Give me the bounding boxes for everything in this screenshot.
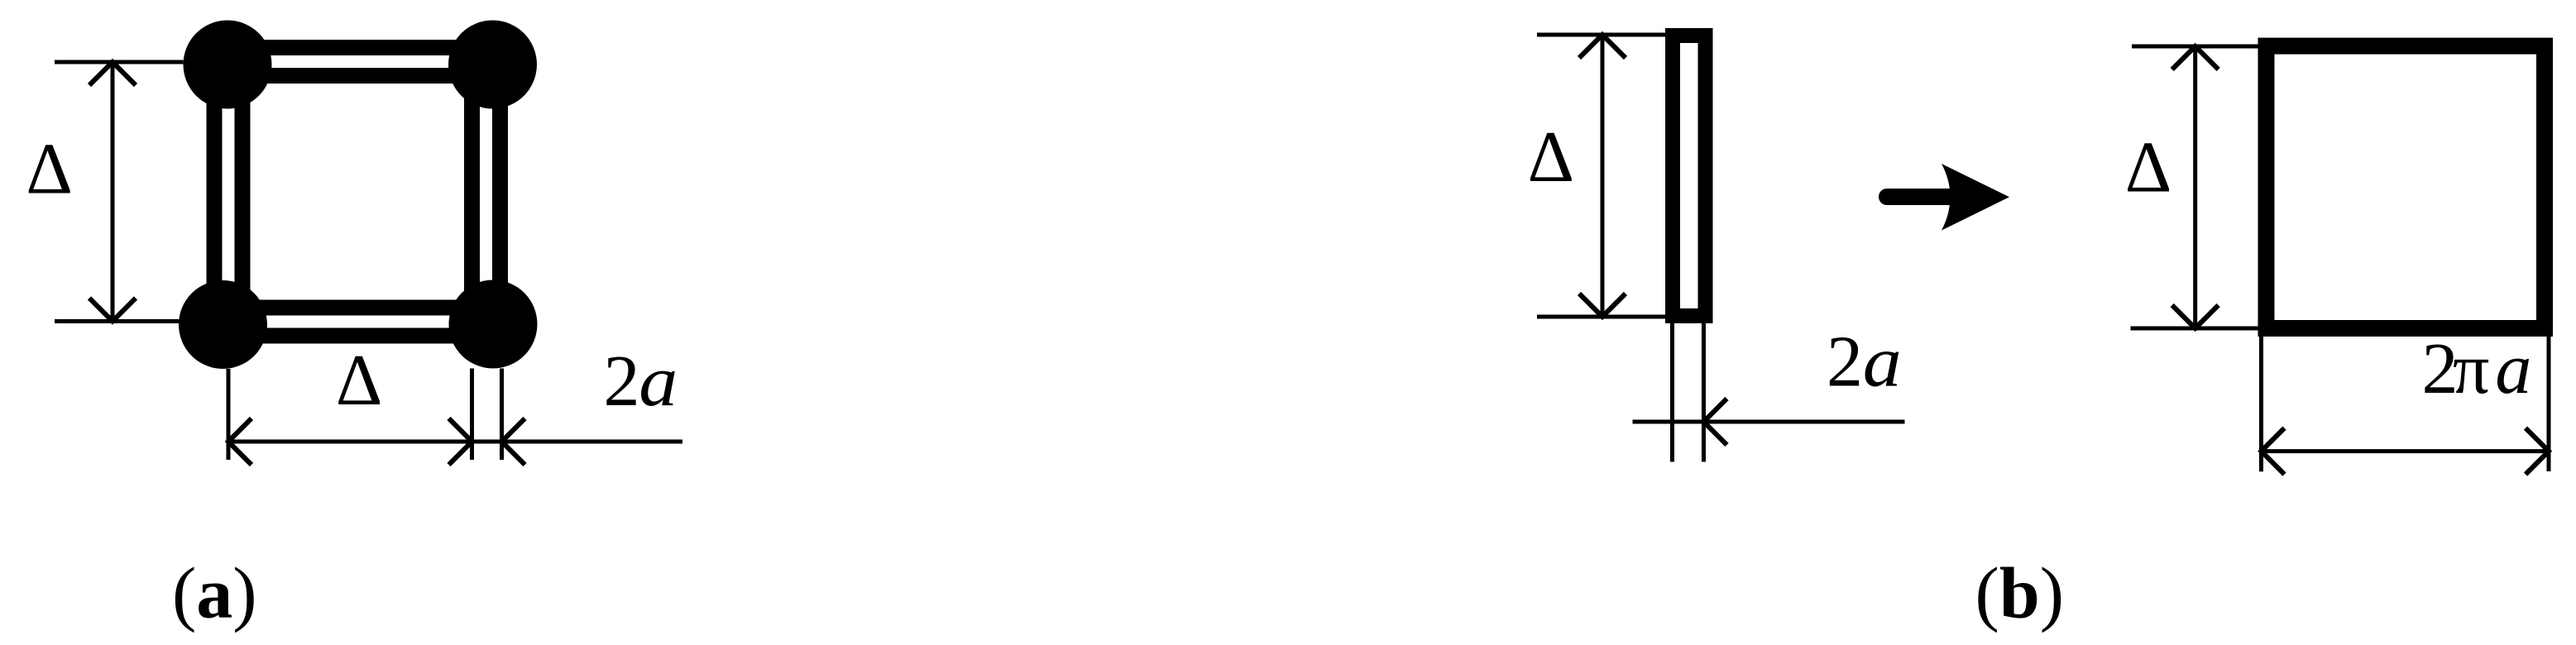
tube right (double wall lines) — [472, 64, 500, 324]
tube cross-section rectangle — [1673, 36, 1706, 316]
svg-text:π: π — [2453, 329, 2489, 409]
arrowhead right of Delta span (a bottom dim) — [449, 418, 472, 465]
svg-text:2: 2 — [604, 342, 640, 422]
arrowhead left at tube wall (b 2a dim) — [1704, 399, 1727, 445]
svg-text:Δ: Δ — [1528, 117, 1575, 198]
svg-text:2: 2 — [1827, 322, 1863, 403]
dimension line Delta vertical (b square) — [2193, 46, 2197, 328]
extension line below right tube wall right — [500, 369, 504, 461]
extension line top (b square) — [2132, 45, 2258, 49]
extension line below tube wall left (b) — [1670, 323, 1674, 462]
arrowhead left of 2a span (a bottom dim) — [502, 418, 525, 465]
svg-text:(a): (a) — [172, 553, 257, 633]
arrowhead right (b 2pia dim) — [2526, 428, 2549, 475]
node bottom-left (filled circle) — [179, 280, 267, 369]
tube top (double wall lines) — [227, 48, 493, 76]
extension line below tube wall right (b) — [1702, 323, 1706, 462]
dimension line Delta vertical (a) — [111, 62, 115, 322]
dimension extension line top-left — [55, 60, 184, 64]
extension line bottom (b tube) — [1537, 315, 1665, 319]
dimension line 2a horizontal (b) — [1633, 420, 1905, 424]
svg-text:a: a — [2495, 329, 2531, 409]
svg-text:Δ: Δ — [2125, 128, 2172, 208]
arrowhead left (a bottom dim) — [228, 418, 251, 465]
arrowhead left (b 2pia dim) — [2262, 428, 2285, 475]
svg-text:a: a — [639, 342, 678, 422]
arrowhead up (b square dim) — [2172, 46, 2219, 69]
node top-left (filled circle) — [184, 21, 272, 109]
arrowhead down (b tube dim) — [1579, 294, 1626, 317]
extension line below square left (b) — [2259, 330, 2263, 471]
extension line bottom (b square) — [2131, 327, 2259, 331]
arrowhead down (b square dim) — [2172, 305, 2219, 328]
arrowhead down (a left dim) — [89, 299, 136, 322]
svg-text:(b): (b) — [1975, 553, 2065, 633]
unfolded square outline — [2267, 46, 2545, 328]
extension line below square right (b) — [2547, 337, 2551, 471]
svg-text:Δ: Δ — [336, 341, 383, 421]
arrowhead up (b tube dim) — [1579, 35, 1626, 58]
node bottom-right (filled circle) — [449, 280, 538, 369]
tube left (double wall lines) — [214, 64, 242, 325]
extension line below right tube wall left — [470, 369, 474, 461]
tube bottom (double wall lines) — [223, 308, 494, 336]
extension line below node bottom-left — [227, 369, 231, 460]
svg-text:a: a — [1863, 322, 1902, 403]
transform arrow (thick right arrow) — [1887, 164, 2009, 231]
extension line top (b tube) — [1537, 33, 1665, 37]
dimension line Delta vertical (b tube) — [1601, 35, 1605, 317]
dimension extension line bottom-left — [55, 319, 180, 323]
dimension line 2pia horizontal (b) — [2262, 449, 2550, 453]
dimension line bottom horizontal (a) — [228, 440, 682, 444]
arrowhead up (a left dim) — [89, 62, 136, 85]
svg-text:Δ: Δ — [26, 130, 73, 210]
node top-right (filled circle) — [448, 21, 537, 109]
